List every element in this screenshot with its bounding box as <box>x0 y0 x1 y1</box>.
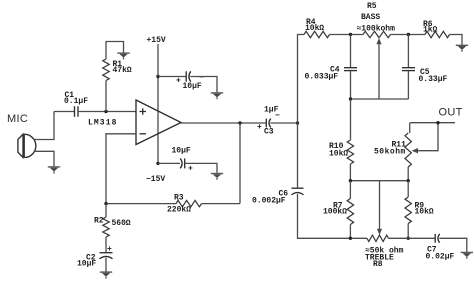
svg-text:MIC: MIC <box>7 113 28 125</box>
ground (V- bypass) <box>211 173 223 180</box>
ground (R1 top) <box>117 52 129 59</box>
wire +15V rail down through op-amp <box>157 44 159 163</box>
wire C2 to ground <box>105 258 107 272</box>
svg-text:+: + <box>107 245 112 254</box>
svg-text:LM318: LM318 <box>88 119 118 128</box>
capacitor C4 <box>305 35 358 100</box>
wire R1 top lead <box>106 42 124 60</box>
svg-text:0.002µF: 0.002µF <box>252 197 286 206</box>
wire feedback left segment <box>106 203 176 205</box>
wire op-amp output <box>181 122 266 124</box>
wire OUT node down to R11 wiper <box>414 123 438 151</box>
node output/feedback <box>238 121 241 124</box>
wire C1 to op-amp + input <box>78 111 136 113</box>
resistor R4 <box>304 18 330 38</box>
resistor R2 <box>94 204 131 237</box>
wire feedback right segment <box>202 203 241 205</box>
ground (mic) <box>48 165 60 174</box>
wire R1 bottom lead <box>105 81 107 112</box>
ground (C2) <box>100 271 112 278</box>
node bass bus left <box>349 97 352 100</box>
resistor R11 <box>374 133 411 167</box>
svg-text:50kohm: 50kohm <box>374 148 406 157</box>
node mid bus left <box>349 179 352 182</box>
wiper R11 (arrow left) <box>412 148 418 153</box>
wire R11 to mid bus <box>407 167 409 181</box>
wire C3 to left rail <box>270 122 297 124</box>
wire mic bottom terminal <box>34 151 54 165</box>
svg-text:47kΩ: 47kΩ <box>113 66 132 75</box>
ground (C7) <box>461 252 473 259</box>
node mid bus right <box>407 179 410 182</box>
svg-text:−15V: −15V <box>146 175 165 184</box>
wire R5 to C5 node <box>391 34 426 36</box>
svg-text:≈100kohm: ≈100kohm <box>357 25 396 34</box>
wire V+ to bypass cap <box>158 76 186 78</box>
capacitor C5 <box>402 35 448 100</box>
wire OUT <box>410 122 455 124</box>
ground (R6) <box>456 45 468 52</box>
svg-text:100kΩ: 100kΩ <box>323 208 347 217</box>
wire bypass cap to ground <box>190 77 217 93</box>
svg-text:+15V: +15V <box>147 36 166 45</box>
capacitor C7 <box>426 234 455 262</box>
svg-text:10µF: 10µF <box>183 82 202 91</box>
node C4 top <box>349 33 352 36</box>
node left rail / C3 <box>296 121 299 124</box>
wire V- bypass cap to ground <box>185 163 217 173</box>
svg-text:560Ω: 560Ω <box>112 219 131 228</box>
wire C7 to ground <box>439 238 467 252</box>
capacitor C1 <box>64 91 88 117</box>
wiper R8 (arrow down) <box>377 181 382 235</box>
capacitor 10uF (V- bypass) <box>172 147 194 174</box>
wire bass bottom bus <box>351 98 409 100</box>
wire left rail bottom section <box>298 194 368 238</box>
svg-text:10kΩ: 10kΩ <box>329 150 348 159</box>
svg-text:R3: R3 <box>174 194 184 203</box>
wire C4 node down to R10 <box>350 99 352 140</box>
microphone MIC <box>18 134 36 157</box>
wire input node to C1 <box>54 111 74 113</box>
node R9 bottom <box>407 237 410 240</box>
wire R11 top lead <box>409 123 411 133</box>
wiper R5 (arrow up) <box>376 38 381 99</box>
svg-text:10kΩ: 10kΩ <box>415 208 434 217</box>
resistor R7 <box>323 181 354 239</box>
wire R2 to C2 <box>105 237 107 252</box>
svg-text:0.1µF: 0.1µF <box>64 97 88 106</box>
capacitor C6 <box>252 188 304 205</box>
svg-text:R8: R8 <box>373 260 383 269</box>
svg-text:0.33µF: 0.33µF <box>419 75 448 84</box>
potentiometer R8 TREBLE <box>365 235 404 269</box>
resistor R10 <box>329 140 354 164</box>
node + input / R1 <box>104 110 107 113</box>
node OUT <box>436 121 439 124</box>
wire bottom bus right segment <box>389 237 435 239</box>
node feedback <box>104 202 107 205</box>
svg-text:+: + <box>188 165 193 174</box>
wire R4 to C4 node <box>330 34 364 36</box>
svg-text:0.02µF: 0.02µF <box>426 253 455 262</box>
ground (V+ bypass) <box>211 92 223 99</box>
svg-text:10µF: 10µF <box>77 260 96 269</box>
wire mid bus <box>350 180 408 182</box>
wire output node down to R3 <box>239 123 241 204</box>
svg-text:10µF: 10µF <box>172 147 191 156</box>
svg-text:OUT: OUT <box>439 107 463 119</box>
wire R10 to mid bus <box>349 164 351 181</box>
svg-text:C3: C3 <box>264 128 274 137</box>
wire R6 to ground <box>450 35 463 45</box>
capacitor C3 <box>257 106 280 137</box>
svg-text:1kΩ: 1kΩ <box>423 25 438 34</box>
resistor R3 <box>167 194 202 215</box>
resistor R1 <box>103 59 132 81</box>
wire V- to bypass cap <box>158 162 180 164</box>
node V+ bypass <box>156 75 159 78</box>
resistor R6 <box>423 20 450 38</box>
wire left rail top section <box>298 35 305 188</box>
svg-text:+: + <box>176 77 181 86</box>
svg-text:R5: R5 <box>367 2 377 11</box>
svg-text:0.033µF: 0.033µF <box>305 73 339 82</box>
svg-text:10kΩ: 10kΩ <box>305 24 324 33</box>
op-amp U1 LM318 <box>88 100 181 145</box>
node V- bypass <box>156 162 159 165</box>
svg-text:+: + <box>257 123 262 132</box>
wire inverting input to feedback node <box>106 134 136 204</box>
node C5 top <box>407 33 410 36</box>
svg-text:BASS: BASS <box>361 13 380 22</box>
wire mic top terminal <box>34 112 54 140</box>
svg-text:−: − <box>275 112 280 121</box>
svg-text:220kΩ: 220kΩ <box>167 206 191 215</box>
potentiometer R5 BASS <box>357 2 396 38</box>
node R7 bottom <box>349 237 352 240</box>
resistor R9 <box>405 181 434 239</box>
capacitor C2 <box>77 245 113 269</box>
svg-text:R2: R2 <box>94 217 104 226</box>
capacitor 10uF (V+ bypass) <box>176 71 204 91</box>
